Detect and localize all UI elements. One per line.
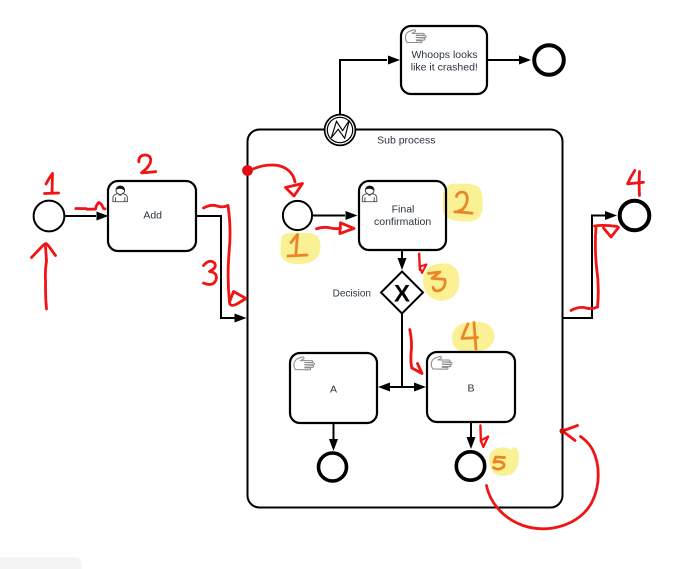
svg-text:Final: Final <box>392 203 415 215</box>
svg-text:Sub process: Sub process <box>377 135 435 147</box>
svg-text:confirmation: confirmation <box>374 216 431 228</box>
svg-text:X: X <box>394 281 410 308</box>
svg-text:Decision: Decision <box>333 289 371 300</box>
svg-text:Whoops looks: Whoops looks <box>412 49 478 61</box>
svg-text:Add: Add <box>143 210 162 222</box>
svg-text:A: A <box>330 383 337 395</box>
svg-text:B: B <box>467 383 474 395</box>
svg-text:like it crashed!: like it crashed! <box>411 62 478 74</box>
